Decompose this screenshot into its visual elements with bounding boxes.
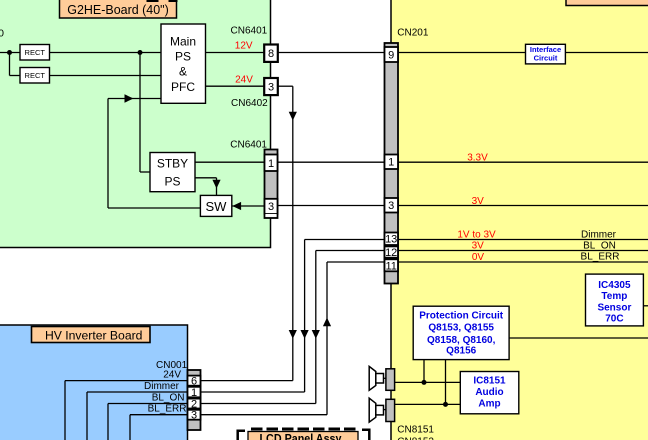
svg-text:BL_ERR: BL_ERR [148, 404, 187, 415]
svg-text:Q8158, Q8160,: Q8158, Q8160, [427, 335, 496, 346]
svg-text:Main: Main [170, 34, 196, 48]
svg-text:Protection Circuit: Protection Circuit [419, 310, 504, 321]
svg-text:0: 0 [0, 28, 4, 40]
svg-text:Q8156: Q8156 [446, 345, 476, 356]
svg-text:3V: 3V [472, 241, 485, 252]
svg-text:13: 13 [385, 234, 397, 246]
svg-text:Sensor: Sensor [597, 302, 631, 313]
svg-text:CN6401: CN6401 [231, 26, 268, 37]
svg-text:8: 8 [268, 48, 274, 60]
svg-text:RECT: RECT [25, 71, 46, 80]
svg-text:Dimmer: Dimmer [581, 229, 617, 240]
svg-text:BL_ON: BL_ON [583, 240, 616, 251]
svg-text:CN8151: CN8151 [397, 425, 434, 436]
svg-text:1: 1 [388, 157, 394, 169]
svg-text:3: 3 [268, 82, 274, 94]
svg-text:SW: SW [206, 199, 228, 214]
svg-text:6: 6 [191, 376, 197, 388]
svg-text:STBY: STBY [157, 157, 188, 171]
svg-text:BL_ON: BL_ON [152, 392, 185, 403]
svg-text:3.3V: 3.3V [467, 153, 488, 164]
svg-text:CN201: CN201 [397, 28, 429, 39]
svg-text:PS: PS [164, 174, 180, 188]
svg-text:0V: 0V [472, 252, 485, 263]
svg-text:Dimmer: Dimmer [144, 381, 180, 392]
svg-text:11: 11 [385, 260, 396, 272]
svg-text:IC8151: IC8151 [473, 375, 506, 386]
svg-text:Temp: Temp [601, 291, 627, 302]
svg-text:PS: PS [175, 50, 191, 64]
svg-text:70C: 70C [605, 313, 623, 324]
svg-text:CN8152: CN8152 [397, 437, 434, 440]
svg-text:1: 1 [191, 387, 197, 399]
svg-text:Q8153, Q8155: Q8153, Q8155 [428, 323, 494, 334]
svg-text:3: 3 [191, 410, 197, 422]
svg-text:BL_ERR: BL_ERR [581, 251, 620, 262]
svg-text:Audio: Audio [475, 387, 503, 398]
svg-text:2: 2 [191, 399, 197, 411]
svg-text:3: 3 [268, 201, 274, 213]
svg-text:3: 3 [388, 200, 394, 212]
svg-text:PFC: PFC [171, 80, 195, 94]
svg-text:3V: 3V [472, 196, 485, 207]
svg-text:1: 1 [268, 158, 274, 170]
svg-text:G2HE-Board (40"): G2HE-Board (40") [67, 2, 169, 17]
svg-text:12V: 12V [235, 40, 253, 51]
svg-text:Circuit: Circuit [534, 53, 558, 62]
svg-text:12: 12 [385, 247, 397, 259]
svg-text:HV Inverter Board: HV Inverter Board [45, 328, 143, 342]
svg-text:RECT: RECT [25, 48, 46, 57]
svg-text:1V to 3V: 1V to 3V [457, 230, 496, 241]
svg-text:24V: 24V [235, 75, 253, 86]
svg-text:CN6402: CN6402 [231, 98, 268, 109]
svg-text:24V: 24V [163, 370, 181, 381]
svg-text:IC4305: IC4305 [598, 280, 631, 291]
svg-text:Amp: Amp [478, 399, 500, 410]
svg-text:&: & [179, 65, 187, 79]
svg-text:9: 9 [388, 50, 394, 62]
svg-text:CN6401: CN6401 [230, 140, 267, 151]
svg-text:LCD Panel Assy: LCD Panel Assy [260, 432, 342, 440]
